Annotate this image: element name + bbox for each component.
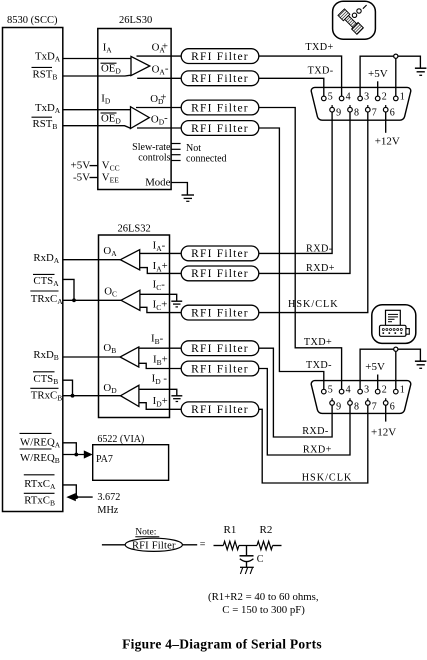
- ground (chassis, note): [240, 567, 254, 574]
- svg-text:3.672: 3.672: [97, 492, 120, 503]
- J2 pin 8: [348, 398, 359, 412]
- wire CTSB to TRxCB junction: [63, 380, 73, 396]
- svg-text:OD-: OD-: [151, 112, 168, 126]
- wire J1 pin 8 to RXD+ (RFI filter F6): [259, 112, 350, 273]
- modem port icon: [333, 1, 376, 39]
- svg-text:OED: OED: [101, 112, 121, 125]
- svg-text:OC: OC: [104, 285, 117, 298]
- J1 pin 2: [375, 92, 386, 103]
- wire +5V to VCC: [90, 165, 98, 167]
- J1 pin 3: [358, 92, 369, 103]
- svg-text:-5V: -5V: [73, 172, 90, 184]
- wire Mode to ground: [171, 183, 187, 195]
- svg-text:RSTB: RSTB: [33, 118, 58, 131]
- svg-text:5: 5: [328, 92, 333, 103]
- wire W/REQB to PA7: [63, 454, 85, 456]
- svg-text:TxDA: TxDA: [35, 102, 61, 115]
- svg-text:3: 3: [364, 385, 369, 396]
- svg-text:RxDB: RxDB: [33, 349, 58, 362]
- svg-text:IB+: IB+: [153, 353, 168, 367]
- svg-text:RTxCB: RTxCB: [24, 494, 55, 507]
- RFI filter F4 (TXD- B): [181, 121, 259, 136]
- resistor R1: [223, 541, 239, 549]
- J2 pin 7: [366, 398, 377, 412]
- svg-text:RFI Filter: RFI Filter: [191, 123, 249, 135]
- J1 pin 5: [322, 92, 333, 103]
- svg-text:TxDA: TxDA: [35, 51, 61, 64]
- svg-text:2: 2: [382, 92, 387, 103]
- wire J2 pin 3 to ground: [360, 349, 420, 389]
- IC 26LS32: [99, 235, 170, 418]
- svg-text:9: 9: [336, 107, 341, 118]
- svg-text:OA+: OA+: [152, 40, 168, 54]
- wire IC+ to RFI filter F7: [140, 307, 181, 312]
- svg-text:3: 3: [364, 92, 369, 103]
- svg-text:Mode: Mode: [145, 176, 170, 188]
- wire TRxCA from receiver C output: [63, 299, 121, 301]
- wire lead to R1: [214, 545, 224, 547]
- svg-text:TXD-: TXD-: [306, 360, 332, 371]
- wire RSTB(2) to driver D enable: [63, 126, 131, 129]
- wire TxDA(2) to driver D input: [63, 109, 131, 111]
- wire OD- output to RFI filter F4: [137, 127, 181, 129]
- wire TxDA to driver A input: [63, 58, 131, 60]
- wire RSTB to driver A enable: [63, 74, 131, 77]
- J2 pin 6: [383, 398, 394, 412]
- svg-text:W/REQB: W/REQB: [20, 452, 60, 465]
- svg-text:controls: controls: [138, 153, 170, 164]
- wire TXD+ to J1 pin 4: [259, 56, 342, 96]
- RFI filter F1 (TXD+ A): [181, 49, 259, 64]
- svg-text:IA-: IA-: [153, 239, 166, 253]
- connector J1 (modem port DE-9): [311, 87, 411, 120]
- svg-text:OA-: OA-: [152, 62, 169, 76]
- svg-text:IA+: IA+: [153, 260, 168, 274]
- svg-text:1: 1: [400, 92, 405, 103]
- wire IC- to ground: [140, 294, 177, 301]
- svg-text:TXD-: TXD-: [308, 66, 334, 77]
- node junction J2 pin1/ground (open): [394, 347, 398, 351]
- svg-text:R2: R2: [260, 524, 273, 536]
- svg-text:IC+: IC+: [153, 298, 168, 312]
- svg-text:IA: IA: [103, 42, 113, 55]
- RFI filter F5 (RXD- A): [181, 246, 259, 261]
- note RFI filter symbol: [125, 538, 182, 551]
- J2 pin 9: [330, 398, 341, 412]
- svg-text:MHz: MHz: [97, 505, 118, 516]
- J2 pin 5: [322, 385, 333, 396]
- svg-text:Slew-rate: Slew-rate: [132, 142, 171, 153]
- wire IB+ to RFI filter F9: [139, 363, 181, 368]
- svg-text:Not: Not: [186, 143, 201, 154]
- wire TXD- to J1 pin 5: [259, 78, 324, 96]
- J1 pin 1: [394, 92, 405, 103]
- svg-text:6522 (VIA): 6522 (VIA): [97, 434, 144, 445]
- svg-text:RFI Filter: RFI Filter: [191, 248, 249, 260]
- svg-text:=: =: [200, 540, 206, 551]
- RFI filter F10 (HSK/CLK B): [181, 402, 259, 417]
- svg-text:7: 7: [372, 107, 377, 118]
- svg-text:TRxCA: TRxCA: [31, 293, 63, 306]
- svg-text:8: 8: [354, 402, 359, 413]
- wire TXD+ B: RFI filter F3 to J2 pin 4: [259, 108, 342, 390]
- wire W/REQA to junction: [63, 443, 77, 455]
- svg-text:9: 9: [336, 402, 341, 413]
- svg-text:OD+: OD+: [150, 92, 166, 106]
- svg-text:RSTB: RSTB: [33, 68, 58, 81]
- wire note right lead: [182, 544, 197, 546]
- svg-text:TXD+: TXD+: [304, 337, 332, 348]
- svg-text:connected: connected: [186, 154, 227, 165]
- receiver U2A (26LS32): [120, 250, 139, 270]
- svg-text:PA7: PA7: [96, 454, 113, 465]
- svg-text:RFI Filter: RFI Filter: [191, 363, 249, 375]
- svg-text:RFI Filter: RFI Filter: [191, 51, 249, 63]
- wire TXD- B: RFI filter F4 to J2 pin 5: [259, 128, 324, 389]
- RFI filter F2 (TXD- A): [181, 71, 259, 86]
- svg-text:RXD-: RXD-: [302, 426, 329, 437]
- IC 8530 (SCC): [3, 28, 63, 512]
- wire IA+ to RFI filter F6: [140, 268, 182, 274]
- wire J1 pin 9 to RXD- (RFI filter F5): [259, 112, 332, 253]
- J2 pin 3: [358, 385, 369, 396]
- svg-text:IB-: IB-: [151, 332, 164, 346]
- svg-text:RFI Filter: RFI Filter: [191, 73, 249, 85]
- wire J1 pin 7 to HSK/CLK (RFI filter F7): [259, 112, 368, 313]
- svg-text:7: 7: [372, 402, 377, 413]
- J1 pin 7: [366, 105, 377, 118]
- wire OA+ output to RFI filter F1: [137, 55, 182, 57]
- wire J2 pin 6 to +12V: [385, 405, 387, 421]
- svg-text:1: 1: [400, 385, 405, 396]
- node junction CTSA/TRxCA: [72, 298, 76, 302]
- J2 pin 1: [394, 385, 405, 396]
- RFI filter F8 (RXD- B): [181, 341, 259, 356]
- svg-text:Figure 4–Diagram of Serial Por: Figure 4–Diagram of Serial Ports: [122, 637, 322, 652]
- connector J2 (printer port DE-9): [311, 381, 411, 414]
- svg-text:+5V: +5V: [71, 160, 91, 172]
- node junction CTSB/TRxCB: [71, 394, 75, 398]
- wire TRxCB from receiver D output: [63, 395, 121, 397]
- J1 pin 4: [339, 92, 350, 103]
- svg-text:(R1+R2 = 40 to 60 ohms,: (R1+R2 = 40 to 60 ohms,: [208, 591, 319, 603]
- svg-text:Note:: Note:: [135, 528, 156, 538]
- svg-text:C = 150 to 300 pF): C = 150 to 300 pF): [222, 604, 305, 616]
- wire +5V to J2 pin 2: [377, 375, 379, 390]
- wire -5V to VEE: [90, 177, 98, 179]
- wire R1 to R2: [239, 545, 257, 547]
- wire J1 pin 3 to ground: [360, 56, 420, 96]
- svg-text:OED: OED: [101, 63, 121, 76]
- svg-text:R1: R1: [224, 524, 237, 536]
- svg-text:OD: OD: [103, 382, 117, 395]
- node junction RTxCA-RTxCB: [74, 495, 78, 499]
- RFI filter F6 (RXD+ A): [181, 266, 259, 281]
- svg-text:RFI Filter: RFI Filter: [191, 102, 249, 114]
- svg-text:4: 4: [346, 385, 351, 396]
- svg-text:26LS32: 26LS32: [118, 224, 151, 235]
- IC 6522 (VIA): [93, 445, 169, 481]
- svg-text:IC-: IC-: [153, 278, 166, 292]
- RFI filter F3 (TXD+ B): [181, 100, 259, 115]
- IC 26LS30: [98, 29, 171, 190]
- node junction W/REQA-W/REQB: [74, 453, 78, 457]
- wire +5V to J1 pin 2: [377, 81, 379, 96]
- svg-text:W/REQA: W/REQA: [20, 436, 61, 449]
- driver U1D (26LS30 channel B): [131, 107, 150, 129]
- wire RxDB from receiver B output: [63, 356, 120, 358]
- wire IA- to RFI filter F5: [140, 252, 182, 254]
- svg-text:8: 8: [354, 107, 359, 118]
- svg-text:RFI Filter: RFI Filter: [132, 540, 176, 551]
- wire ID+ to RFI filter F10: [139, 403, 181, 410]
- svg-text:26LS30: 26LS30: [119, 15, 152, 26]
- ground (Mode): [182, 194, 195, 196]
- wire RXD- B: RFI filter F8 to J2 pin 9: [259, 348, 332, 437]
- receiver U2B (26LS32): [120, 347, 139, 367]
- svg-text:RXD+: RXD+: [303, 444, 332, 455]
- wire note left lead: [102, 544, 125, 546]
- wire ID- to ground: [139, 389, 177, 395]
- wire J1 pin 1 to ground junction: [395, 56, 397, 96]
- svg-text:+12V: +12V: [375, 135, 400, 147]
- svg-text:ID: ID: [101, 92, 111, 105]
- ground (IC-): [171, 300, 182, 302]
- svg-text:ID -: ID -: [152, 373, 168, 387]
- wire RTxCA to junction: [63, 485, 77, 497]
- J2 pin 4: [339, 385, 350, 396]
- RFI filter F9 (RXD+ B): [181, 361, 259, 376]
- wire OD+ output to RFI filter F3: [136, 107, 181, 109]
- svg-text:ID+: ID+: [153, 395, 168, 409]
- svg-text:4: 4: [346, 92, 351, 103]
- wire RXD+ B: RFI filter F9 to J2 pin 8: [259, 369, 350, 456]
- svg-text:RXD+: RXD+: [306, 263, 335, 274]
- resistor R2: [257, 541, 273, 549]
- svg-text:+12V: +12V: [371, 426, 396, 438]
- wire OA- output to RFI filter F2: [137, 77, 181, 79]
- RFI filter F7 (HSK/CLK A): [181, 305, 259, 320]
- arrow from 3.672 MHz clock (points left): [66, 493, 76, 501]
- node junction pin1/ground (open): [394, 54, 398, 58]
- svg-text:RFI Filter: RFI Filter: [191, 404, 249, 416]
- wire CTSA to TRxCA junction: [63, 279, 74, 300]
- ground (earth, J2): [415, 360, 427, 362]
- wire 3.672 MHz to RTxCB: [75, 496, 93, 498]
- svg-text:RXD-: RXD-: [306, 243, 333, 254]
- wire J2 pin 1 to ground junction: [395, 349, 397, 389]
- svg-text:6: 6: [390, 107, 395, 118]
- J1 pin 9: [330, 105, 341, 118]
- driver U1A (26LS30 channel A): [131, 56, 150, 75]
- svg-text:OA: OA: [103, 245, 117, 258]
- wire HSK/CLK B: RFI filter F10 to J2 pin 7: [259, 405, 368, 483]
- J1 pin 8: [348, 105, 359, 118]
- svg-text:5: 5: [328, 385, 333, 396]
- svg-text:RFI Filter: RFI Filter: [191, 343, 249, 355]
- svg-text:RFI Filter: RFI Filter: [191, 307, 249, 319]
- ground (earth, J1): [415, 67, 427, 69]
- printer port icon: [372, 305, 416, 344]
- svg-text:TRxCB: TRxCB: [31, 389, 62, 402]
- wire junction to capacitor C: [246, 546, 248, 556]
- svg-text:HSK/CLK: HSK/CLK: [302, 472, 353, 483]
- svg-text:CTSB: CTSB: [33, 373, 58, 386]
- svg-text:TXD+: TXD+: [305, 42, 333, 53]
- svg-text:8530 (SCC): 8530 (SCC): [7, 15, 58, 26]
- svg-text:RFI Filter: RFI Filter: [191, 268, 249, 280]
- receiver U2D (26LS32): [121, 385, 139, 406]
- svg-text:C: C: [257, 554, 264, 565]
- wire RxDA from receiver A output: [63, 259, 121, 261]
- wire R2 right lead: [273, 545, 282, 547]
- svg-text:+5V: +5V: [365, 361, 385, 373]
- J1 pin 6: [383, 105, 394, 118]
- capacitor C: [240, 556, 254, 568]
- svg-text:VEE: VEE: [102, 172, 119, 185]
- svg-text:RxDA: RxDA: [33, 252, 59, 265]
- svg-text:+5V: +5V: [368, 68, 388, 80]
- wire J1 pin 6 to +12V: [385, 112, 387, 133]
- receiver U2C (26LS32): [121, 290, 140, 310]
- svg-text:RTxCA: RTxCA: [24, 478, 56, 491]
- svg-text:OB: OB: [103, 342, 116, 355]
- wire IB- to RFI filter F8: [139, 347, 181, 349]
- svg-text:6: 6: [390, 402, 395, 413]
- J2 pin 2: [375, 385, 386, 396]
- ground (ID-): [171, 395, 182, 397]
- svg-text:CTSA: CTSA: [33, 275, 59, 288]
- arrow into PA7: [84, 450, 93, 458]
- svg-text:2: 2: [382, 385, 387, 396]
